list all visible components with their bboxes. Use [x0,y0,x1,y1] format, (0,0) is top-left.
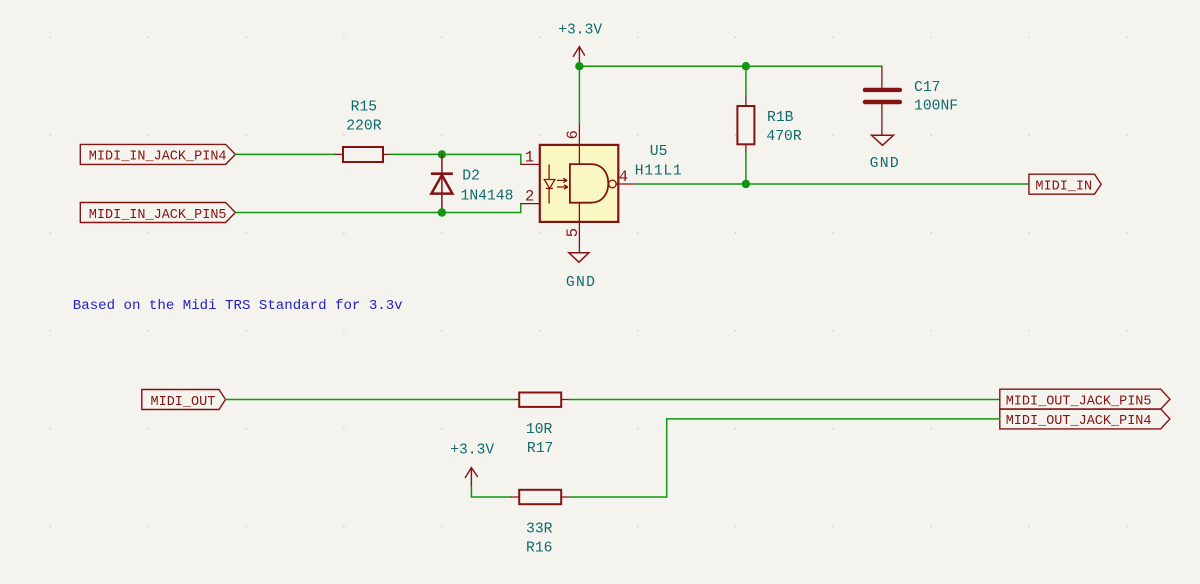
svg-text:U5: U5 [650,144,668,160]
+3.3V text top [558,22,602,38]
resistor R16 [511,490,570,504]
resistor R1B [737,97,754,153]
svg-text:5: 5 [564,228,582,237]
svg-text:MIDI_OUT: MIDI_OUT [151,395,216,410]
pin number 5 (rotated) [564,228,582,237]
pin number 4 [619,168,628,186]
wire U5 pin4 to MIDI_IN [636,183,1029,185]
svg-text:+3.3V: +3.3V [450,443,494,459]
wire MIDI_IN_JACK_PIN4 to R15 [235,153,335,155]
svg-text:Based on the Midi TRS Standard: Based on the Midi TRS Standard for 3.3v [73,298,403,314]
pin 4 stub [616,183,636,185]
junction at D2 cathode [438,150,446,158]
diode D2 [431,154,453,212]
wire rail to U5 pin6 [578,66,580,124]
svg-text:R15: R15 [351,100,377,116]
label MIDI_OUT_JACK_PIN5 [1000,389,1170,409]
label MIDI_OUT_JACK_PIN4 [1000,409,1170,429]
GND text under C17 [870,156,900,172]
svg-text:MIDI_IN_JACK_PIN5: MIDI_IN_JACK_PIN5 [89,208,227,223]
wire +3.3V rail [579,65,882,67]
svg-text:D2: D2 [462,169,480,185]
note text [73,298,403,314]
capacitor C17 [865,66,900,134]
svg-text:100NF: 100NF [914,99,958,115]
svg-text:MIDI_IN: MIDI_IN [1035,180,1092,195]
svg-text:10R: 10R [526,422,553,438]
ground symbol under U5 [569,253,589,262]
svg-text:C17: C17 [914,80,940,96]
wire R15 to U5 pin1 [391,154,521,164]
svg-text:6: 6 [564,130,582,139]
wire R17 to MIDI_OUT_JACK_PIN5 [570,399,1000,401]
junction at +3.3V [575,62,583,70]
ground symbol under C17 [872,135,894,145]
svg-text:GND: GND [566,275,596,291]
label MIDI_IN [1029,174,1101,194]
wire R16 to MIDI_OUT_JACK_PIN4 [570,419,1000,497]
junction at D2 anode [438,208,446,216]
svg-text:2: 2 [525,188,534,206]
ref R1B / value 470R [766,110,801,145]
pin 5 stub [578,222,580,252]
junction R1B/output [742,180,750,188]
junction rail/R1B [742,62,750,70]
ref D2 / value 1N4148 [461,169,514,205]
svg-text:R16: R16 [526,540,552,556]
pin 1 stub [521,163,540,165]
svg-text:220R: 220R [346,119,381,135]
svg-text:MIDI_IN_JACK_PIN4: MIDI_IN_JACK_PIN4 [89,150,227,165]
svg-text:MIDI_OUT_JACK_PIN4: MIDI_OUT_JACK_PIN4 [1006,414,1152,429]
svg-text:4: 4 [619,168,628,186]
+3.3V text lower [450,443,494,459]
pin 6 stub [578,124,580,145]
value 10R / ref R17 [526,422,553,457]
optocoupler U5 body [540,145,619,222]
pin 2 stub [521,203,540,205]
pin number 1 [525,149,534,167]
pin number 6 (rotated) [564,130,582,139]
wire MIDI_IN_JACK_PIN5 to U5 pin2 [235,204,520,213]
svg-text:MIDI_OUT_JACK_PIN5: MIDI_OUT_JACK_PIN5 [1006,395,1152,410]
resistor R17 [516,393,570,407]
wire rail to R1B [745,66,747,96]
svg-text:GND: GND [870,156,900,172]
svg-text:1: 1 [525,149,534,167]
value 33R / ref R16 [526,522,553,557]
wire R1B to output net [745,153,747,185]
power symbol +3.3V top [573,47,585,67]
power symbol +3.3V lower [465,468,478,487]
svg-text:1N4148: 1N4148 [461,188,514,204]
svg-text:470R: 470R [766,129,801,145]
wire +3.3V to R16 [471,487,511,497]
resistor R15 [336,147,391,162]
svg-text:R17: R17 [527,441,553,457]
GND text under U5 [566,275,596,291]
svg-text:33R: 33R [526,522,553,538]
svg-text:R1B: R1B [767,110,794,126]
pin number 2 [525,188,534,206]
ref C17 / value 100NF [914,80,958,115]
svg-text:H11L1: H11L1 [635,163,683,179]
label MIDI_OUT [142,390,226,410]
label MIDI_IN_JACK_PIN5 [80,203,235,223]
svg-text:+3.3V: +3.3V [558,22,602,38]
ref U5 / value H11L1 [635,144,683,179]
label MIDI_IN_JACK_PIN4 [80,144,235,164]
ref R15 / value 220R [346,100,381,135]
wire MIDI_OUT to R17 [226,399,516,401]
